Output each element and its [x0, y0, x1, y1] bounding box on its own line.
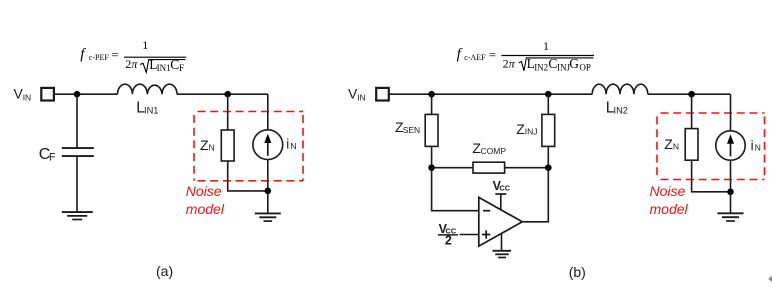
impedance ZSEN	[425, 94, 438, 168]
svg-text:INJ: INJ	[525, 127, 538, 137]
label VIN (b)	[348, 86, 366, 103]
label ZCOMP	[472, 140, 506, 156]
wire op-amp output to ZINJ node	[522, 168, 548, 222]
svg-text:N: N	[290, 141, 296, 151]
svg-text:N: N	[209, 143, 215, 153]
node junction at iN bottom (b)	[727, 189, 734, 196]
node junction above ZN	[224, 91, 231, 98]
plus sign	[482, 230, 490, 238]
svg-text:OP: OP	[579, 62, 591, 72]
svg-text:IN1: IN1	[144, 105, 158, 115]
label ZN (a)	[200, 137, 215, 153]
svg-text:1: 1	[543, 39, 549, 53]
svg-text:IN1: IN1	[157, 63, 171, 73]
svg-text:(b): (b)	[569, 264, 586, 280]
label iN (b)	[751, 138, 761, 153]
svg-text:model: model	[186, 201, 225, 217]
svg-text:i: i	[286, 137, 289, 152]
wire Vcc to op-amp	[500, 194, 502, 210]
wire to op-amp inverting input	[432, 168, 479, 211]
label LIN2	[606, 99, 628, 116]
wire Vcc/2 to non-inverting input	[460, 234, 479, 236]
label LIN1	[136, 99, 158, 116]
node junction ZCOMP left	[428, 164, 435, 171]
svg-text:2: 2	[445, 234, 452, 248]
label Vcc top	[493, 179, 511, 193]
svg-text:2: 2	[125, 57, 131, 71]
svg-text:=: =	[489, 47, 496, 62]
label Vcc/2	[438, 222, 458, 247]
svg-text:IN: IN	[357, 93, 366, 103]
op-amp U1 triangle	[479, 197, 523, 246]
node junction above ZSEN	[428, 91, 435, 98]
ground below op-amp	[493, 234, 512, 258]
node junction above ZN (b)	[688, 91, 695, 98]
svg-text:2: 2	[503, 56, 509, 70]
wire terminal to inductor (b)	[389, 93, 592, 95]
node junction at iN bottom (a)	[265, 188, 272, 195]
terminal VIN square (b)	[376, 88, 389, 101]
svg-text:(a): (a)	[156, 263, 173, 279]
resistor ZCOMP	[473, 162, 505, 173]
svg-text:G: G	[569, 56, 579, 71]
current source iN (a)	[253, 94, 283, 191]
inductor LIN1	[118, 84, 178, 94]
terminal VIN square	[41, 88, 54, 101]
label iN (a)	[286, 137, 296, 152]
svg-text:F: F	[49, 151, 56, 163]
svg-text:IN2: IN2	[614, 105, 628, 115]
svg-text:Noise: Noise	[186, 183, 222, 199]
label ZINJ	[516, 121, 537, 137]
wire ZN bottom to node (b)	[691, 191, 731, 193]
impedance ZN (a)	[221, 94, 234, 191]
impedance ZN (b)	[685, 94, 698, 192]
svg-text:F: F	[179, 63, 184, 73]
svg-text:CC: CC	[499, 184, 510, 193]
label VIN	[14, 86, 32, 103]
gray marker at right edge	[768, 276, 772, 282]
noise model dashed box (a)	[194, 112, 303, 181]
wire inductor to noise branch	[177, 93, 268, 95]
svg-text:N: N	[755, 143, 761, 153]
wire terminal to inductor	[54, 93, 118, 95]
svg-text:IN2: IN2	[534, 62, 548, 72]
inductor LIN2	[592, 84, 648, 94]
label ZSEN	[395, 119, 420, 135]
svg-text:SEN: SEN	[403, 125, 420, 135]
noise model dashed box (b)	[657, 113, 765, 180]
ground below noise model (a)	[255, 191, 281, 221]
svg-text:C: C	[170, 57, 179, 72]
Vcc supply bar	[495, 193, 506, 195]
label Noise model (a)	[186, 183, 225, 217]
svg-text:Noise: Noise	[650, 183, 686, 199]
label ZN (b)	[664, 136, 679, 152]
svg-text:1: 1	[142, 38, 148, 52]
impedance ZINJ	[542, 94, 555, 168]
formula f_c-AEF = 1/(2*pi*sqrt(L_IN2 C_INJ G_OP))	[457, 39, 594, 72]
minus sign	[483, 210, 490, 212]
node junction above ZINJ	[545, 91, 552, 98]
svg-text:COMP: COMP	[481, 146, 507, 156]
svg-text:N: N	[673, 141, 679, 151]
svg-text:π: π	[509, 56, 516, 70]
wire inductor to noise branch (b)	[648, 93, 731, 95]
label Noise model (b)	[650, 183, 689, 217]
wire ZCOMP row right	[505, 167, 549, 169]
svg-text:IN: IN	[23, 93, 32, 103]
formula f_c-PEF = 1/(2*pi*sqrt(L_IN1 C_F))	[80, 38, 186, 73]
capacitor CF	[62, 94, 94, 212]
node junction ZCOMP right	[545, 164, 552, 171]
svg-text:c-PEF: c-PEF	[89, 53, 110, 62]
svg-text:i: i	[751, 138, 754, 153]
wire ZN bottom to node	[227, 190, 268, 192]
ground below CF	[62, 212, 93, 219]
node junction above CF	[74, 91, 81, 98]
ground below noise model (b)	[718, 192, 744, 221]
current source iN (b)	[716, 94, 745, 192]
svg-text:c-AEF: c-AEF	[464, 53, 486, 62]
svg-text:=: =	[111, 47, 118, 62]
wire ZCOMP row left	[432, 167, 473, 169]
svg-text:π: π	[131, 57, 138, 71]
svg-text:model: model	[650, 201, 689, 217]
label CF	[39, 146, 56, 163]
